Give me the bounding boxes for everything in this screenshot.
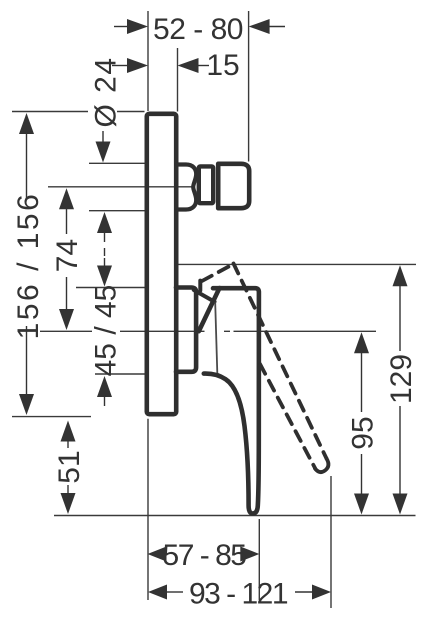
lever left slant edge [199, 288, 220, 331]
dashed lever tip cap [315, 459, 328, 473]
spout ring [199, 166, 213, 203]
dim 45/45 lower up arrow [97, 376, 112, 397]
svg-text:156 / 156: 156 / 156 [12, 192, 45, 340]
label 95 [346, 416, 379, 449]
svg-text:129: 129 [385, 354, 418, 404]
dim 52-80 left arrow [127, 19, 148, 34]
wire extension line wall-left x148 top [147, 11, 149, 111]
svg-text:57 - 85: 57 - 85 [163, 539, 247, 572]
dashed lever raised underside [202, 265, 233, 282]
label 129 [385, 354, 418, 404]
wire extension line spout end x248.6 [248, 11, 250, 162]
node spout centerline y186.8 [48, 186, 193, 188]
label 45/45 [89, 285, 122, 377]
svg-text:95: 95 [346, 416, 379, 449]
lever pivot stub [198, 281, 202, 291]
svg-text:93 - 121: 93 - 121 [189, 577, 288, 610]
spout end cap [218, 164, 249, 208]
dim 93-121 left arrow [148, 585, 167, 600]
node handle centerline y331.3 [40, 330, 376, 332]
svg-text:Ø 24: Ø 24 [89, 56, 122, 127]
dim 129 up arrow [393, 265, 408, 286]
svg-text:51: 51 [53, 450, 86, 483]
dim 93-121 right arrow [312, 585, 331, 600]
dim 51 up arrow [61, 421, 76, 442]
dim 15 right arrow [178, 58, 199, 73]
wall plate escutcheon [147, 114, 176, 414]
dashed lever raised edge A [234, 264, 327, 459]
wire extension line x148 bottom [147, 419, 149, 600]
wire sleeve-top extension y287.5 [76, 287, 145, 289]
svg-text:45 / 45: 45 / 45 [89, 285, 122, 377]
label 74 [51, 239, 84, 272]
dim 45/45 middle dash [104, 248, 105, 256]
dim 57-85 right arrow [240, 547, 259, 562]
dim 95 down arrow [354, 494, 369, 515]
wire spout-bottom extension y210.7 [89, 210, 145, 212]
wire lever-apex extension y264.4 [175, 263, 416, 265]
dim 15 left arrow [127, 58, 148, 73]
spout nub [177, 165, 196, 210]
wire baseline y515.5 [54, 515, 416, 517]
dim 156/156 bottom arrow [19, 394, 34, 415]
lever inner contour thin line [215, 303, 217, 374]
wire spout-top extension y163.3 [89, 162, 145, 164]
wire extension line plate front x177.5 [177, 48, 179, 112]
dim 156/156 top arrow [19, 113, 34, 134]
wire plate-bottom extension y416.6 [12, 416, 91, 418]
dim 95 up arrow [354, 332, 369, 353]
wire extension line lever tip x259.3 [258, 519, 260, 600]
dim 51 down arrow [61, 493, 76, 514]
wire plate-top extension y111.5 [12, 111, 145, 113]
dim 74 top arrow [59, 188, 74, 209]
dim 129 down arrow [393, 494, 408, 515]
dashed lever raised edge B [260, 364, 316, 469]
label 51 [53, 450, 86, 483]
dim dia24 down arrow [96, 142, 111, 163]
dim 57-85 left arrow [148, 547, 167, 562]
dim 74 bottom arrow [59, 309, 74, 330]
dim 45/45 upper up arrow [97, 212, 112, 233]
lever handle solid down position [204, 288, 259, 513]
wire extension line dashed-lever tip x331 [330, 476, 332, 608]
dim 52-80 right arrow [249, 19, 270, 34]
lever root underside [194, 290, 215, 302]
dim 45/45 down arrow [97, 266, 112, 287]
svg-text:52 - 80: 52 - 80 [153, 13, 243, 46]
svg-text:74: 74 [51, 239, 84, 272]
svg-text:15: 15 [206, 49, 239, 82]
label dia 24 [89, 56, 122, 127]
wire sleeve-bottom extension y374 [95, 373, 145, 375]
handle sleeve [176, 288, 196, 372]
label 156/156 [12, 192, 45, 340]
